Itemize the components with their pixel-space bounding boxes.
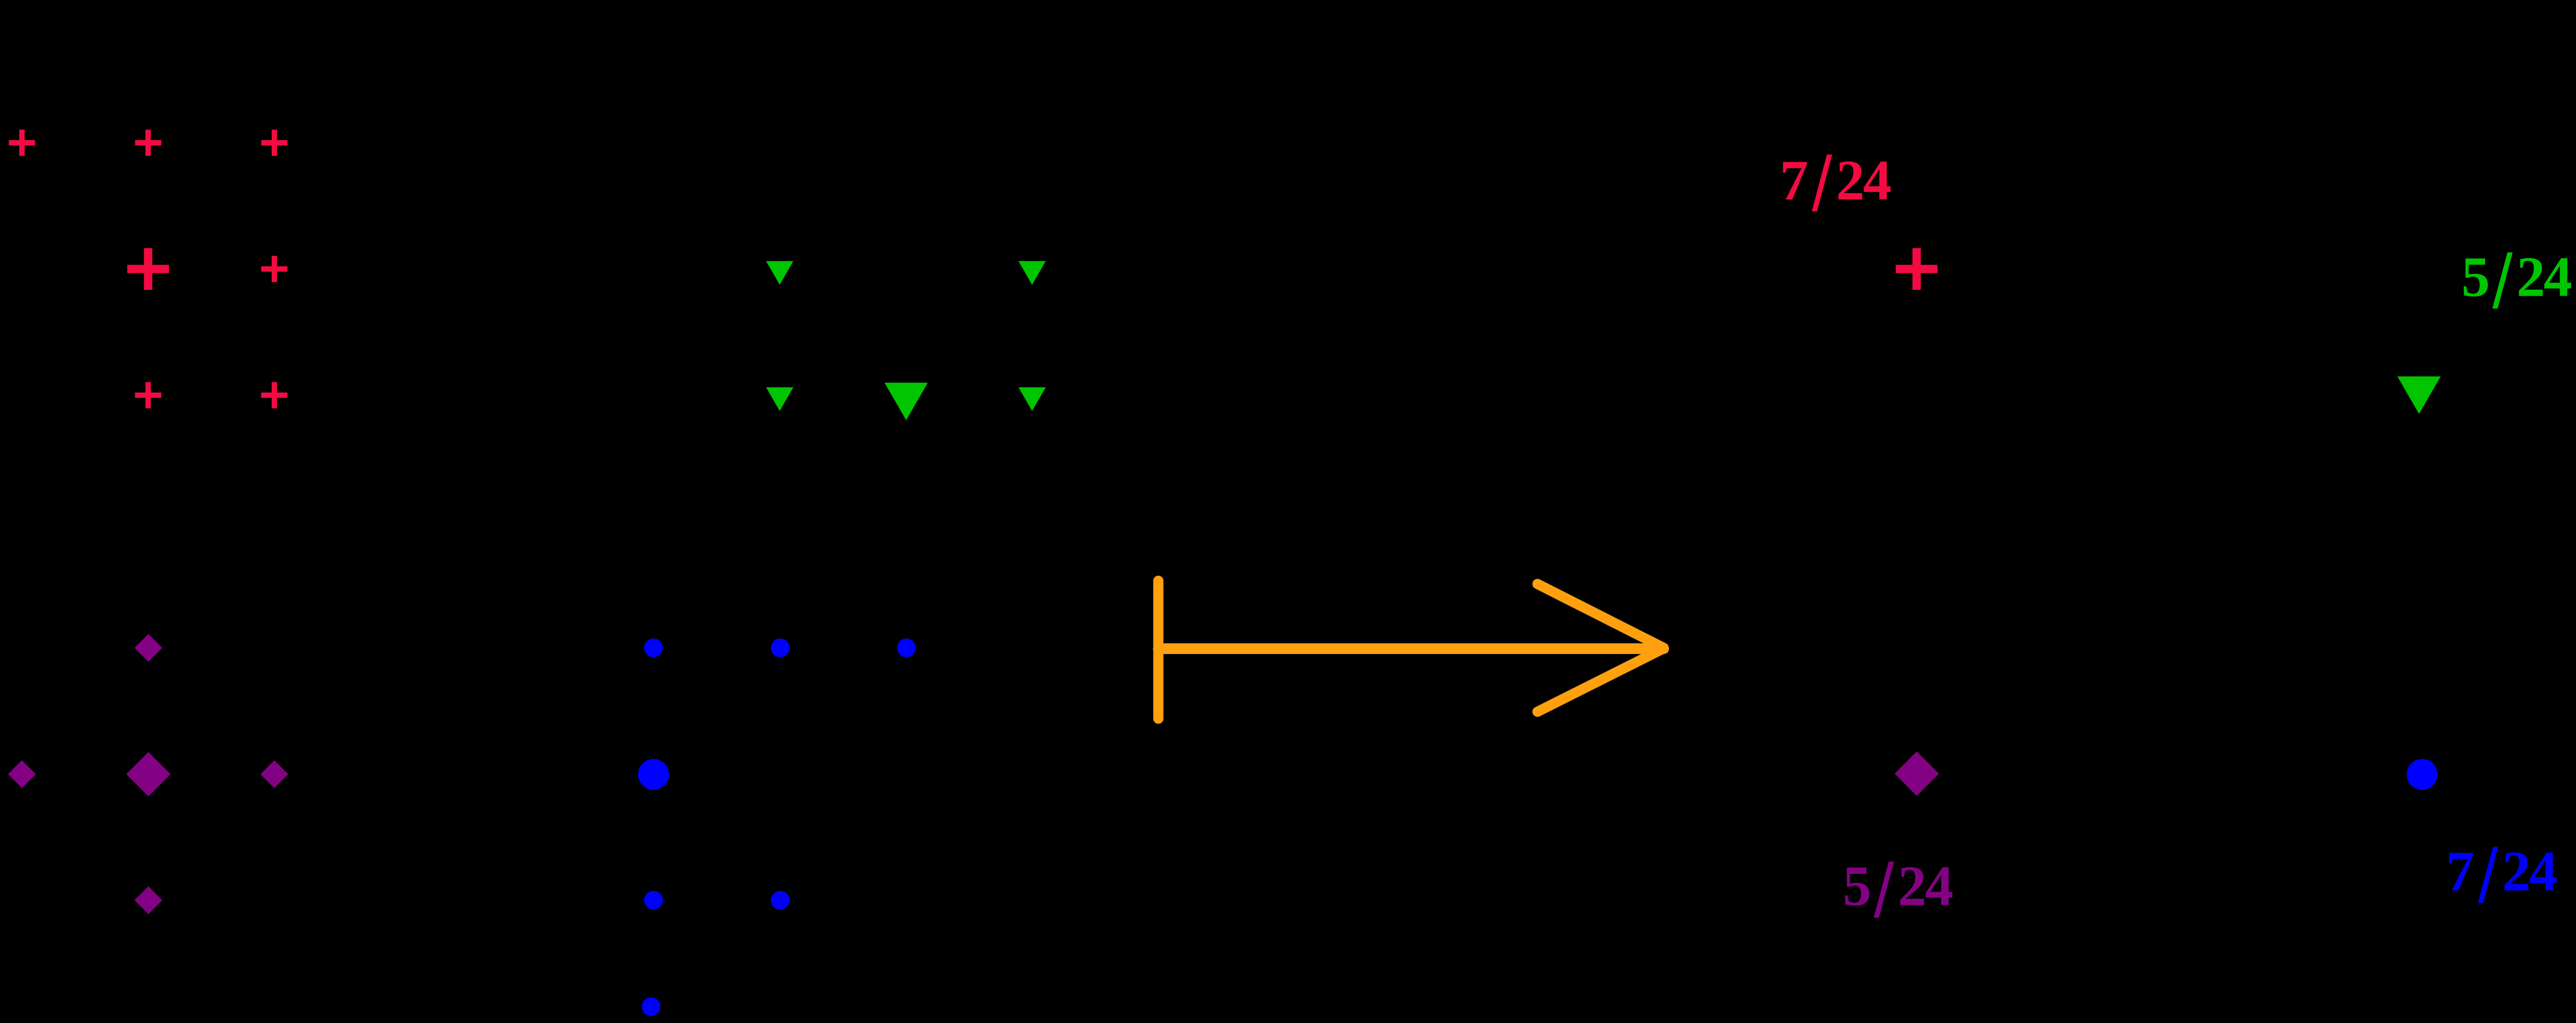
svg-text:5: 5 bbox=[1843, 855, 1872, 918]
svg-text:7: 7 bbox=[2446, 840, 2475, 903]
svg-text:24: 24 bbox=[1898, 855, 1954, 918]
svg-text:24: 24 bbox=[2517, 246, 2572, 309]
svg-text:24: 24 bbox=[1836, 149, 1891, 212]
svg-text:7: 7 bbox=[1780, 149, 1809, 212]
svg-text:24: 24 bbox=[2502, 840, 2558, 903]
svg-text:5: 5 bbox=[2462, 246, 2490, 309]
